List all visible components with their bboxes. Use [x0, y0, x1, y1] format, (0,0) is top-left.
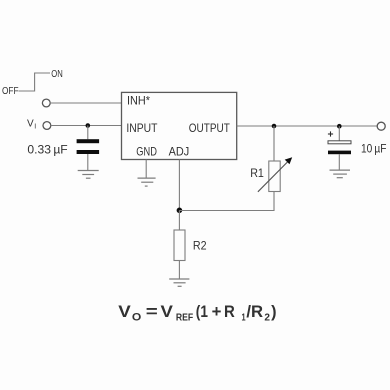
- svg-text:V: V: [161, 303, 173, 321]
- svg-text:I: I: [34, 124, 36, 131]
- resistor R2: [174, 230, 185, 261]
- capacitor C2 10uF top plate: [328, 141, 351, 144]
- wire OUTPUT to terminal: [237, 125, 378, 127]
- svg-text:(1: (1: [196, 303, 208, 321]
- capacitor C2 bottom plate: [328, 151, 351, 155]
- svg-text:GND: GND: [136, 145, 157, 159]
- plus sign of C2: [328, 131, 333, 136]
- svg-text:ON: ON: [51, 69, 63, 80]
- svg-text:R1: R1: [250, 166, 264, 180]
- svg-text:OFF: OFF: [2, 86, 19, 97]
- ground GND pin: [138, 178, 156, 186]
- junction dot output at R1: [272, 124, 277, 129]
- ground C2: [330, 170, 351, 178]
- arrow of R1: [258, 161, 289, 192]
- ground R2: [169, 279, 189, 286]
- junction dot output at C2: [337, 124, 342, 129]
- wire VI to box: [51, 125, 122, 127]
- wire down to C1: [87, 126, 89, 140]
- svg-text:V: V: [118, 303, 131, 321]
- wire C2 to ground: [338, 154, 340, 170]
- wire INH to box: [50, 102, 121, 104]
- ground C1: [78, 171, 99, 179]
- svg-text:=: =: [146, 303, 158, 321]
- wire down to R1: [273, 126, 275, 161]
- svg-text:V: V: [27, 119, 34, 130]
- formula VO = VREF (1 + R1/R2): [118, 303, 276, 323]
- svg-text:0.33 µF: 0.33 µF: [27, 142, 67, 156]
- svg-text:ADJ: ADJ: [169, 145, 190, 159]
- svg-text:/R: /R: [246, 303, 263, 321]
- wire R1 bottom to ADJ node: [179, 192, 274, 211]
- svg-text:REF: REF: [176, 312, 193, 323]
- svg-text:+: +: [212, 303, 222, 321]
- svg-text:10 µF: 10 µF: [361, 141, 386, 155]
- wire ADJ pin down: [178, 160, 180, 211]
- svg-text:): ): [271, 303, 276, 321]
- svg-text:O: O: [132, 311, 142, 323]
- wire R2 to ground: [178, 261, 180, 280]
- terminal INH: [42, 99, 50, 107]
- terminal VI: [43, 122, 51, 130]
- terminal VO: [377, 122, 385, 130]
- resistor R1 (variable): [269, 161, 280, 192]
- svg-text:R: R: [224, 303, 235, 321]
- svg-text:1: 1: [242, 311, 246, 323]
- svg-text:OUTPUT: OUTPUT: [189, 121, 231, 135]
- wire C2 top: [338, 126, 340, 141]
- wire C1 to ground: [87, 154, 89, 171]
- junction dot ADJ node: [177, 208, 183, 214]
- svg-text:2: 2: [264, 311, 270, 323]
- wire GND pin down: [145, 160, 147, 179]
- switch ON/OFF annotation: [19, 73, 51, 91]
- svg-text:INPUT: INPUT: [126, 121, 158, 135]
- svg-text:R2: R2: [193, 239, 207, 253]
- capacitor C1 0.33uF: [77, 139, 100, 143]
- svg-text:INH*: INH*: [127, 94, 150, 108]
- wire ADJ node to R2: [178, 211, 180, 231]
- junction dot input: [86, 123, 91, 128]
- regulator U1 box: [122, 92, 237, 159]
